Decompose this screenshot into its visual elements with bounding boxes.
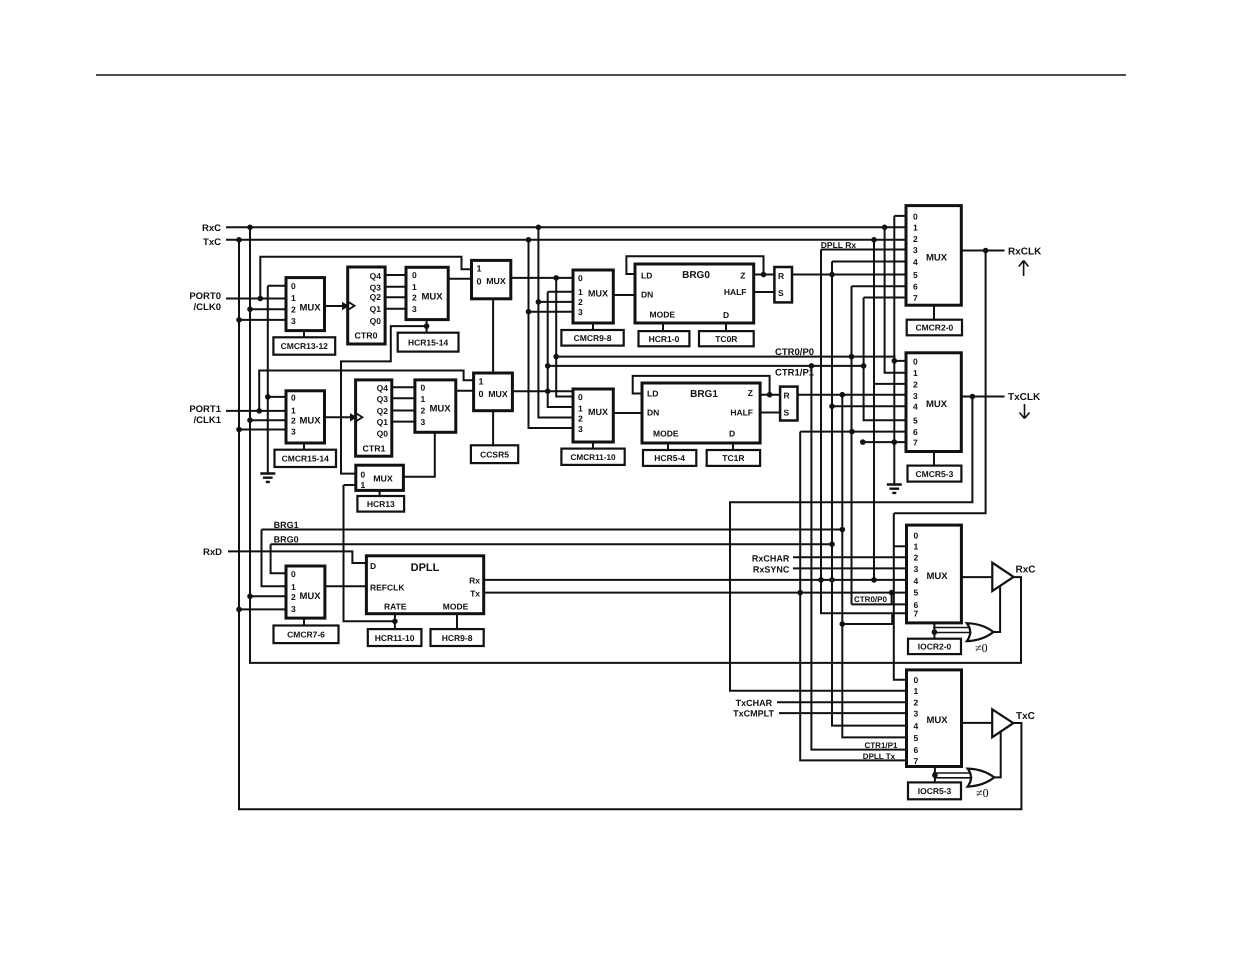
svg-text:MUX: MUX: [373, 474, 393, 484]
wire x832 branch to TxCLK mux in4: [832, 405, 906, 407]
svg-text:CTR1: CTR1: [363, 444, 386, 454]
mux RxC pin output select (IOCR2-0): [907, 525, 962, 623]
svg-text:5: 5: [914, 588, 919, 598]
register label IOCR2-0: [908, 639, 961, 654]
ground symbol left: [260, 474, 275, 482]
svg-text:HCR13: HCR13: [367, 499, 395, 509]
svg-text:CMCR15-14: CMCR15-14: [282, 454, 330, 464]
svg-text:≠0: ≠0: [975, 641, 988, 655]
mux 1/0 row1 (CCSR5): [474, 373, 513, 411]
wire right vertical to RxCLK mux in4: [832, 261, 906, 263]
wire MODE select stub: [456, 614, 458, 629]
svg-text:3: 3: [291, 604, 296, 614]
register label CCSR5: [471, 445, 518, 463]
register label HCR15-14: [398, 333, 459, 352]
svg-text:TxCHAR: TxCHAR: [736, 698, 773, 708]
svg-text:6: 6: [913, 282, 918, 292]
wire CTR1 Q2 to mux in2: [392, 410, 415, 412]
wire CTR0/P0 long line to TxCLK mux in0: [556, 357, 906, 361]
svg-text:Z: Z: [740, 270, 745, 280]
svg-text:Q0: Q0: [377, 429, 389, 439]
svg-text:R: R: [778, 271, 784, 281]
wire HCR15-14 select stub: [426, 320, 428, 333]
wire OR output to driver enable (RxC): [993, 586, 1000, 633]
wire TxCLK output: [961, 396, 1004, 398]
wire HCR13 stub: [379, 490, 381, 496]
wire TxC right vertical to TxCLK mux in2: [874, 240, 906, 384]
svg-text:1: 1: [913, 368, 918, 378]
junction RATE select: [392, 619, 398, 625]
wire CCSR5 select between 1/0 muxes: [492, 299, 494, 373]
wire RxD to DPLL D input: [228, 551, 366, 563]
wire CMCR7-6 select stub: [303, 618, 305, 625]
wire 1/0 mux row1 output (CTR1/P1): [512, 390, 574, 392]
wire RxC to PORT1 mux in2: [250, 419, 286, 421]
wire CTR1 Q4 to mux in0: [392, 386, 415, 388]
mux CTR0 tap select (HCR15-14): [406, 267, 448, 319]
svg-text:0: 0: [578, 392, 583, 402]
mux 0/1 (HCR13): [356, 465, 404, 490]
svg-text:REFCLK: REFCLK: [370, 583, 405, 593]
svg-text:0: 0: [578, 273, 583, 283]
wire OR gate input upper (TxC): [933, 772, 971, 774]
wire CTR0 Q4 to mux in0: [385, 274, 406, 276]
mux PORT0 input select (CMCR13-12): [286, 278, 325, 331]
register label TC1R: [707, 450, 760, 466]
svg-text:MODE: MODE: [443, 601, 469, 611]
mux BRG1 input select (CMCR11-10): [573, 389, 613, 442]
svg-text:LD: LD: [647, 389, 658, 399]
svg-text:CMCR5-3: CMCR5-3: [916, 469, 954, 479]
svg-text:1: 1: [578, 404, 583, 414]
wire CTR1/P1 right vertical to TxCLK mux in5: [864, 298, 906, 421]
svg-text:S: S: [778, 288, 784, 298]
svg-text:1: 1: [578, 287, 583, 297]
junctions on RxC net: [247, 225, 887, 600]
wire CTR0 Q1 to mux in3: [385, 308, 406, 310]
svg-text:MUX: MUX: [299, 591, 321, 602]
svg-text:DN: DN: [647, 408, 659, 418]
wire CMCR2-0 select stub: [933, 305, 935, 320]
wire OR gate input lower (TxC): [935, 777, 972, 779]
svg-text:HCR9-8: HCR9-8: [442, 633, 473, 643]
baud rate generator BRG1: [642, 383, 760, 443]
junctions on CTR0/P0 net: [553, 275, 897, 364]
svg-text:HCR15-14: HCR15-14: [408, 337, 448, 347]
wire TC1R stub: [732, 443, 734, 450]
svg-text:0: 0: [914, 530, 919, 540]
register label CMCR2-0: [907, 320, 962, 336]
wire 0/1 mux in1 stub: [344, 484, 356, 486]
svg-text:3: 3: [913, 245, 918, 255]
wire RxC to PORT0 mux in2: [250, 308, 286, 310]
wire RxC net top horizontal: [226, 226, 907, 228]
svg-text:4: 4: [913, 402, 918, 412]
svg-text:D: D: [729, 429, 735, 439]
wire CTR0/P0 vertical from 1/0 mux row0 output to BRG1 mux in0: [556, 278, 573, 397]
wire CTR1 tap mux output to 1/0 mux row1: [456, 390, 474, 392]
wire CTR1/P1 down to TxC out mux in6: [811, 366, 906, 750]
wire ground to PORT0 mux in0: [268, 285, 286, 287]
wire CMCR9-8 select stub: [592, 323, 594, 330]
wire CMCR11-10 select stub: [592, 442, 594, 449]
svg-text:3: 3: [578, 307, 583, 317]
svg-text:D: D: [370, 561, 376, 571]
svg-text:5: 5: [913, 270, 918, 280]
wire BRG0 down to DPLL mux in0: [271, 544, 286, 573]
wire PORT1 mux output to CTR1 clock: [325, 416, 351, 418]
junctions BRG1/BRG0 nets joining right verticals: [829, 527, 845, 547]
mux CTR1 tap select: [415, 380, 456, 432]
svg-text:0: 0: [421, 383, 426, 393]
svg-text:7: 7: [913, 293, 918, 303]
wire TC0R stub: [725, 323, 727, 331]
wire right vertical x832 down to TxC out mux in4: [832, 262, 907, 726]
svg-text:R: R: [784, 391, 790, 401]
svg-text:BRG0: BRG0: [682, 270, 710, 281]
svg-text:2: 2: [913, 234, 918, 244]
wire HCR1-0 stub: [662, 323, 664, 331]
wire ground to PORT1 mux in0: [268, 396, 286, 398]
svg-text:TxC: TxC: [203, 237, 221, 248]
svg-text:MODE: MODE: [653, 429, 679, 439]
svg-text:1: 1: [291, 406, 296, 416]
or-gate for RxC driver enable (IOCR2-0 &#8800; 0): [967, 623, 994, 641]
svg-text:HCR11-10: HCR11-10: [375, 633, 415, 643]
register label HCR11-10: [368, 629, 422, 646]
top horizontal rule: [96, 74, 1126, 76]
svg-text:0: 0: [291, 281, 296, 291]
svg-text:MUX: MUX: [299, 302, 321, 313]
svg-text:MODE: MODE: [650, 310, 676, 320]
svg-text:3: 3: [421, 417, 426, 427]
svg-text:MUX: MUX: [926, 715, 948, 726]
counter CTR1: [356, 380, 392, 456]
svg-text:LD: LD: [641, 271, 652, 281]
wire TxCHAR to TxC out mux in2: [777, 701, 907, 703]
svg-text:PORT0: PORT0: [189, 291, 221, 302]
svg-text:Q1: Q1: [370, 304, 382, 314]
svg-text:RATE: RATE: [384, 601, 407, 611]
svg-text:RxC: RxC: [202, 223, 221, 234]
svg-text:CMCR7-6: CMCR7-6: [287, 630, 325, 640]
wire PORT0/CLK0 to PORT0 mux in1: [226, 298, 286, 300]
svg-text:DN: DN: [641, 290, 653, 300]
junctions ground line and x894 vertical: [849, 429, 897, 445]
arrowhead into CTR1 clock: [350, 413, 357, 421]
svg-text:RxCLK: RxCLK: [1008, 246, 1042, 257]
svg-text:3: 3: [914, 709, 919, 719]
svg-text:MUX: MUX: [488, 389, 508, 399]
svg-text:3: 3: [291, 427, 296, 437]
register label CMCR9-8: [561, 330, 623, 346]
register label TC0R: [699, 331, 754, 346]
arrow up next to RxCLK: [1019, 261, 1029, 277]
svg-text:HALF: HALF: [724, 287, 747, 297]
wire RATE select stub: [394, 614, 396, 629]
register label CMCR5-3: [908, 466, 962, 482]
flip-flop R/S for BRG1: [780, 387, 797, 421]
svg-text:TC1R: TC1R: [722, 453, 744, 463]
svg-text:7: 7: [913, 438, 918, 448]
svg-text:CMCR2-0: CMCR2-0: [915, 323, 953, 333]
baud rate generator BRG0: [635, 264, 754, 323]
svg-text:CCSR5: CCSR5: [480, 449, 509, 459]
svg-text:1: 1: [477, 264, 482, 274]
wire BRG0 mux output to BRG0 DN: [613, 294, 635, 296]
wire CTR0 Q3 to mux in1: [385, 286, 406, 288]
wire PORT0 mux output to CTR0 clock: [325, 305, 343, 307]
wire RxCHAR to RxC out mux in2: [793, 556, 907, 558]
register label IOCR5-3: [908, 782, 961, 799]
svg-text:2: 2: [914, 698, 919, 708]
wire PORT0 mux select stub: [303, 331, 305, 338]
junction ground vertical at PORT1 mux in0: [265, 394, 271, 400]
svg-text:TC0R: TC0R: [715, 334, 737, 344]
wire CMCR5-3 select stub: [933, 452, 935, 466]
svg-text:0: 0: [291, 569, 296, 579]
svg-text:/CLK1: /CLK1: [194, 415, 222, 426]
svg-text:MUX: MUX: [486, 276, 506, 286]
wire CTR0/P0 to RxC out mux in6: [852, 603, 907, 605]
wire CTR1 Q1 to mux in3: [392, 421, 415, 423]
wire PORT1 bypass to 1/0 mux row1 input 1: [259, 371, 473, 411]
svg-text:6: 6: [914, 745, 919, 755]
svg-text:/CLK0: /CLK0: [194, 302, 221, 313]
register label HCR9-8: [431, 629, 484, 646]
junctions on DPLL Rx / BRG0 vertical nets: [818, 404, 877, 627]
wire TxC to DPLL mux in3: [239, 608, 286, 610]
wire BRG1 R/S output to TxCLK mux in3: [798, 394, 907, 396]
svg-text:1: 1: [291, 582, 296, 592]
svg-text:4: 4: [914, 721, 919, 731]
wire TxCLK mux in7 line: [863, 441, 906, 443]
svg-text:Q3: Q3: [377, 394, 389, 404]
mux 1/0 row0 (CCSR5): [472, 260, 511, 298]
wire RxC return loop bottom to RxC driver output: [250, 577, 1021, 663]
DPLL block: [366, 556, 483, 614]
svg-text:3: 3: [412, 304, 417, 314]
wire RxCLK to RxC out mux in1: [894, 545, 907, 547]
wire CTR0 Q2 to mux in2: [385, 296, 406, 298]
svg-text:2: 2: [412, 293, 417, 303]
svg-text:MUX: MUX: [429, 404, 451, 415]
register label HCR1-0: [639, 331, 690, 346]
svg-text:TxCLK: TxCLK: [1008, 392, 1041, 403]
mux TxCLK source select (CMCR5-3): [906, 353, 961, 452]
svg-text:≠0: ≠0: [976, 786, 989, 800]
junctions on CTR1/P1 net: [545, 363, 866, 394]
clock wedge on CTR0: [348, 302, 355, 311]
junctions on TxC net: [236, 237, 877, 612]
wire BRG0 net long horizontal: [271, 543, 832, 545]
wire CTR0 tap mux output to 1/0 mux: [448, 278, 471, 280]
svg-text:MUX: MUX: [926, 252, 948, 263]
wire BRG0 Z to RS flip-flop R: [754, 274, 775, 276]
svg-text:0: 0: [412, 270, 417, 280]
svg-text:2: 2: [421, 406, 426, 416]
svg-text:2: 2: [578, 297, 583, 307]
tri-state driver for RxC pin: [992, 563, 1013, 591]
arrow down next to TxCLK: [1020, 404, 1030, 419]
register label CMCR11-10: [561, 449, 624, 465]
wire CTR1/P1 long line: [548, 365, 865, 367]
wire TxC left vertical + bottom return loop to TxC driver: [239, 240, 1021, 809]
svg-text:MUX: MUX: [926, 399, 948, 410]
wire DPLL Tx to TxCLK mux in6: [800, 431, 906, 433]
or-gate for TxC driver enable (IOCR5-3 &#8800; 0): [968, 769, 995, 787]
wire DPLL Rx vertical to RxC out mux in7: [821, 250, 907, 614]
wire vertical x874 down to DPLL Rx line: [873, 384, 875, 580]
junction BRG1 RS out vertical: [840, 392, 846, 398]
wire jog joining RxC mux in7 line: [842, 613, 892, 624]
svg-text:DPLL: DPLL: [411, 562, 440, 574]
svg-text:RxSYNC: RxSYNC: [753, 565, 790, 575]
wire TxCLK return loop to TxC out mux in1: [730, 397, 972, 691]
wire 0/1 mux output up to CTR1 tap mux select: [403, 432, 434, 477]
svg-text:BRG1: BRG1: [690, 389, 718, 400]
junction HCR15-14 select: [424, 323, 430, 329]
mux PORT1 input select (CMCR15-14): [286, 391, 325, 443]
wire 0/1 mux in1 down to DPLL RATE select: [344, 485, 395, 621]
wire BRG0 LD feedback loop: [626, 256, 763, 274]
svg-text:3: 3: [578, 424, 583, 434]
svg-text:1: 1: [913, 223, 918, 233]
svg-text:4: 4: [914, 576, 919, 586]
svg-text:0: 0: [477, 276, 482, 286]
svg-text:IOCR2-0: IOCR2-0: [918, 642, 952, 652]
svg-text:0: 0: [914, 675, 919, 685]
wire PORT1 mux select stub: [303, 443, 305, 450]
svg-text:Q1: Q1: [377, 417, 389, 427]
svg-text:0: 0: [913, 211, 918, 221]
junction PORT0 bypass tap: [258, 296, 264, 302]
svg-text:0: 0: [913, 356, 918, 366]
svg-text:RxC: RxC: [1016, 565, 1036, 576]
wire TxCMPLT to TxC out mux in3: [779, 712, 907, 714]
mux DPLL reference select (CMCR7-6): [286, 566, 325, 618]
svg-text:3: 3: [291, 316, 296, 326]
svg-text:TxC: TxC: [1016, 711, 1035, 722]
svg-text:Q2: Q2: [377, 406, 389, 416]
wire BRG1 HALF to RS flip-flop S: [760, 412, 780, 414]
svg-text:HALF: HALF: [730, 407, 753, 417]
flip-flop R/S for BRG0: [774, 267, 792, 302]
wire BRG1 down to DPLL mux in1: [262, 530, 287, 587]
svg-text:CMCR11-10: CMCR11-10: [571, 453, 616, 462]
svg-text:MUX: MUX: [299, 416, 321, 427]
wire DPLL Rx output long line to RxC out mux in4: [484, 579, 907, 581]
svg-text:1: 1: [412, 282, 417, 292]
arrowhead into CTR0 clock: [342, 302, 349, 310]
wire BRG1 RS vertical to TxC out mux in5: [842, 395, 906, 738]
wire HCR5-4 stub: [667, 443, 669, 450]
svg-text:CMCR13-12: CMCR13-12: [281, 341, 329, 351]
wire IOCR5-3 select stub: [934, 767, 936, 783]
svg-text:1: 1: [479, 376, 484, 386]
svg-text:Q4: Q4: [377, 383, 389, 393]
svg-text:Q3: Q3: [370, 282, 382, 292]
wire TxC to BRG0 mux in3: [529, 311, 574, 313]
wire CTR0/P0 to RxCLK mux in6: [852, 285, 907, 287]
wire OR output to driver enable (TxC): [994, 731, 1001, 777]
svg-text:Q4: Q4: [370, 271, 382, 281]
wire BRG1 LD feedback loop: [633, 376, 770, 395]
wire PORT1/CLK1 to PORT1 mux in1: [226, 410, 286, 412]
junction DPLL Tx vertical: [797, 590, 803, 596]
mux RxCLK source select (CMCR2-0): [906, 206, 961, 306]
register label HCR5-4: [643, 450, 696, 466]
junction BRG0 RS out at x832 vertical: [829, 272, 835, 278]
svg-text:1: 1: [421, 394, 426, 404]
wire RxC right vertical to TxCLK mux in1: [885, 227, 906, 372]
wire BRG1 mux output to BRG1 DN: [613, 412, 642, 414]
svg-text:7: 7: [914, 609, 919, 619]
wire HCR15-14 select elbow to 0/1 mux in0: [341, 326, 427, 474]
wire CTR1/P1 vertical to BRG1 mux in1: [548, 292, 573, 407]
wire TxC middle vertical to BRG1 mux in3: [529, 240, 574, 428]
svg-text:2: 2: [291, 416, 296, 426]
svg-text:PORT1: PORT1: [189, 404, 221, 415]
wire PORT0 bypass to 1/0 mux row0 input 1: [260, 257, 471, 299]
svg-text:HCR1-0: HCR1-0: [649, 334, 680, 344]
svg-text:1: 1: [361, 480, 366, 490]
svg-text:Q0: Q0: [370, 316, 382, 326]
wire TxC to PORT1 mux in3: [239, 429, 286, 431]
wire RxSYNC to RxC out mux in3: [793, 567, 907, 569]
svg-text:2: 2: [291, 592, 296, 602]
counter CTR0: [348, 267, 385, 344]
wire BRG0 HALF to RS flip-flop S: [754, 291, 775, 293]
wire TxC mux output to driver: [962, 722, 993, 724]
svg-text:2: 2: [913, 379, 918, 389]
wire RxC middle vertical to BRG1 mux in2: [538, 227, 573, 417]
svg-text:3: 3: [913, 391, 918, 401]
svg-text:IOCR5-3: IOCR5-3: [918, 786, 952, 796]
svg-text:MUX: MUX: [588, 289, 608, 299]
register label CMCR13-12: [273, 337, 335, 354]
wire DPLL Tx output long line to RxC out mux in5: [484, 592, 907, 594]
svg-text:3: 3: [914, 564, 919, 574]
wire jog from DPLL Tx line to in6 wire: [891, 593, 893, 605]
wire OR gate input lower (RxC): [934, 632, 971, 634]
svg-text:Q2: Q2: [370, 292, 382, 302]
wire DPLL Tx vertical to TxC out mux in7: [800, 432, 906, 761]
svg-text:MUX: MUX: [588, 407, 608, 417]
wire CTR1/P1 to BRG0 mux in1: [548, 291, 573, 293]
wire DPLL Rx to RxCLK mux in3: [821, 249, 906, 251]
wire CTR0/P0 right vertical: [851, 286, 853, 604]
svg-text:CMCR9-8: CMCR9-8: [574, 333, 612, 343]
svg-text:MUX: MUX: [926, 571, 948, 582]
wire TxC net top horizontal: [226, 239, 907, 241]
ground symbol right: [887, 485, 902, 493]
svg-text:0: 0: [291, 393, 296, 403]
svg-text:CTR0: CTR0: [355, 330, 378, 340]
junction PORT1 bypass tap: [256, 408, 262, 414]
svg-text:5: 5: [913, 416, 918, 426]
svg-text:1: 1: [914, 686, 919, 696]
wire RxC to BRG0 mux in2: [538, 301, 573, 303]
svg-text:Tx: Tx: [470, 589, 480, 599]
wire ground vertical left: [267, 286, 269, 474]
wire CTR1 Q3 to mux in1: [392, 397, 415, 399]
junction BRG1 Z feedback: [767, 392, 773, 398]
junction BRG0 Z feedback: [761, 272, 767, 278]
wire RxCLK output: [961, 250, 1004, 252]
wire IOCR2-0 select stub: [933, 623, 935, 639]
junctions on RxCLK net: [983, 248, 989, 254]
